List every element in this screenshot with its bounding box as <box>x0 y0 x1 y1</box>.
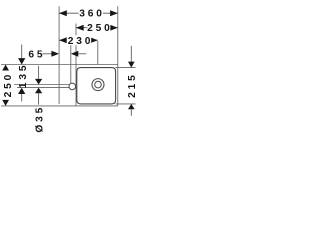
drain inner circle <box>95 81 102 88</box>
dimension 250 left <box>2 65 14 106</box>
wire basin outer left edge extension C <box>75 24 77 106</box>
svg-text:250: 250 <box>3 72 14 98</box>
wire bowl bottom edge extension right <box>115 103 135 105</box>
wire left product edge extension A <box>58 6 60 104</box>
basin inner bowl <box>77 68 116 104</box>
svg-text:250: 250 <box>87 23 113 34</box>
wire bottom front edge line <box>1 105 118 107</box>
spout top line <box>14 84 69 86</box>
svg-text:360: 360 <box>79 9 105 20</box>
dimension 250 top <box>76 23 118 35</box>
svg-text:Ø35: Ø35 <box>34 105 45 133</box>
wire right product edge extension B <box>117 6 119 106</box>
svg-text:135: 135 <box>18 63 29 89</box>
dimension 65 <box>28 50 86 61</box>
dimension 135 left <box>18 45 29 102</box>
wire tap hole extension E <box>70 41 72 83</box>
svg-text:230: 230 <box>68 36 94 47</box>
spout hole circle <box>69 83 76 90</box>
dimension 230 <box>59 35 98 47</box>
dimension 215 right <box>127 46 138 116</box>
wire drain center extension D <box>97 41 99 65</box>
dimension 360 <box>59 8 118 20</box>
wire bowl top edge extension right <box>115 67 135 69</box>
svg-text:65: 65 <box>28 50 45 61</box>
dimension diameter 35 <box>34 66 45 133</box>
spout bottom line <box>17 87 69 89</box>
drain outer circle <box>92 79 104 91</box>
wire deck back edge line <box>1 64 118 66</box>
svg-text:215: 215 <box>127 72 138 98</box>
